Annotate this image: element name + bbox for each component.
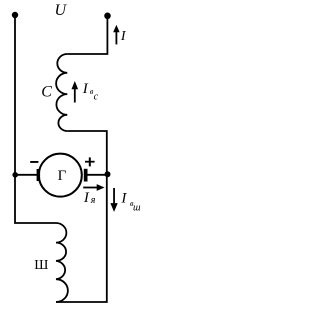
svg-text:Ш: Ш [34,258,48,273]
svg-text:I: I [120,29,127,44]
svg-text:U: U [55,2,68,19]
svg-text:I: I [83,190,90,206]
svg-text:I: I [120,190,127,206]
svg-text:Г: Г [58,168,67,184]
svg-text:I: I [82,81,89,97]
svg-text:с: с [94,91,99,102]
svg-text:я: я [90,195,96,206]
svg-text:ш: ш [133,202,141,213]
svg-text:C: C [41,84,52,101]
